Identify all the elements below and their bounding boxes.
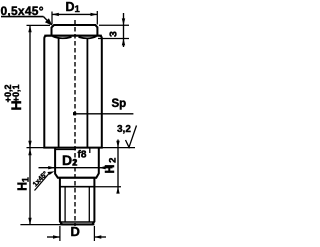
hex washer-face arc left: [53, 36, 72, 38]
dim 3 arrow top: [122, 18, 125, 25]
D extension line left: [59, 226, 61, 241]
svg-text:2: 2: [107, 158, 118, 163]
thread core line right: [88, 187, 90, 222]
H2 top arrow: [116, 141, 119, 148]
hex bottom extension right: [102, 147, 135, 149]
D dimension line left segment: [47, 236, 60, 238]
H top extension: [27, 24, 51, 26]
Sp leader line: [75, 113, 134, 115]
svg-text:f8: f8: [78, 150, 87, 161]
D2 arrow left: [48, 166, 55, 169]
dim 3 extension top: [99, 24, 129, 26]
D arrow right: [94, 235, 101, 238]
D arrow left: [53, 235, 60, 238]
svg-text:Sp: Sp: [112, 98, 127, 110]
step bottom face line: [58, 177, 97, 179]
D1 dimension line: [52, 13, 97, 15]
chamfer leader arrow: [44, 17, 51, 24]
H left extension at hex bottom: [27, 147, 45, 149]
D2 step outline: [55, 148, 99, 178]
H1 dimension line: [29, 148, 31, 225]
centerline (dashed axis): [74, 20, 76, 226]
dim 3 extension bottom: [98, 38, 129, 40]
stud bottom face: [60, 223, 95, 225]
D2 arrow right: [99, 166, 106, 169]
f8 separator tick: [89, 148, 91, 153]
hex washer-face arc right: [79, 36, 97, 38]
chamfer 1x45 leader: [35, 174, 50, 191]
svg-text:3,2: 3,2: [117, 124, 131, 135]
cap bottom / hex top line: [44, 35, 102, 37]
H2 dimension line: [117, 140, 119, 193]
svg-text:3: 3: [108, 31, 120, 37]
svg-text:+0,1: +0,1: [11, 85, 21, 103]
thread start line: [60, 186, 95, 188]
hex body outline: [44, 36, 102, 148]
thread end / chamfer line: [61, 221, 94, 223]
H2 bottom arrow: [116, 187, 119, 194]
H1 top arrow: [28, 148, 31, 155]
D1 arrow left: [52, 13, 59, 16]
chamfer note underline: [1, 16, 44, 18]
Sp leader dot: [73, 112, 76, 115]
D dimension line right segment: [94, 236, 106, 238]
H bottom arrow: [28, 141, 31, 148]
H2 bottom extension: [94, 186, 121, 188]
hex inner facet line left: [58, 38, 60, 148]
D1 extension line right: [96, 11, 98, 25]
dim 3 arrow bottom: [122, 39, 125, 46]
cap (head collar) outline: [52, 25, 98, 35]
step top chamfer line: [55, 148, 76, 150]
svg-text:D: D: [71, 224, 80, 239]
D2 dimension line: [39, 167, 113, 169]
H top arrow: [28, 25, 31, 32]
dim 3 dimension line: [123, 13, 125, 47]
D extension line right: [93, 226, 95, 241]
D1 arrow right: [91, 13, 98, 16]
thread core line left: [64, 187, 66, 222]
H dimension line: [29, 25, 31, 147]
H1 bottom extension: [20, 224, 60, 226]
roughness check symbol: [126, 126, 137, 148]
shank / thread outline: [60, 178, 95, 225]
svg-text:1: 1: [20, 177, 30, 182]
H1 bottom arrow: [28, 218, 31, 225]
hex inner facet line right: [86, 38, 88, 148]
D1 extension line left: [51, 12, 53, 25]
